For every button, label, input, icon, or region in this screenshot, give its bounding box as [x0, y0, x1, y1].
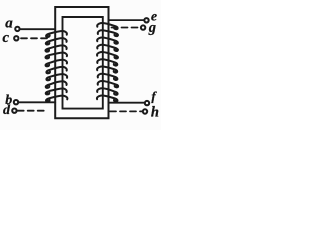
terminal b: [14, 100, 18, 104]
terminal a: [15, 27, 19, 31]
svg-text:g: g: [148, 20, 156, 36]
wire g (dashed rear lead, winding 2 to terminal g): [112, 27, 141, 29]
core (outer outline): [55, 7, 108, 118]
wire c (dashed rear lead, terminal c to winding 1): [21, 37, 50, 39]
terminal h: [143, 109, 147, 113]
winding 2 turns (right limb, terminals e-f front / g-h back): [97, 23, 118, 102]
winding 1 turns (left limb, terminals a-b front / c-d back): [45, 31, 67, 102]
wire f (winding 2 bottom to terminal f): [109, 102, 144, 104]
terminal e: [144, 18, 148, 22]
svg-text:h: h: [151, 104, 159, 120]
terminal d: [12, 109, 16, 113]
svg-text:f: f: [151, 89, 157, 104]
svg-text:d: d: [3, 103, 11, 118]
wire h (dashed rear lead, winding 2 to terminal h): [110, 110, 142, 112]
wire b (terminal b to winding 1 bottom): [19, 101, 55, 103]
wire d (dashed rear lead, terminal d to winding 1): [18, 110, 47, 112]
core (inner outline): [63, 17, 103, 109]
terminal g: [141, 25, 145, 29]
terminal f: [145, 101, 149, 105]
terminal c: [14, 36, 18, 40]
svg-text:c: c: [2, 30, 9, 46]
wire a (terminal a to winding 1 top): [20, 28, 55, 30]
wire e (winding 2 top to terminal e): [109, 19, 144, 21]
